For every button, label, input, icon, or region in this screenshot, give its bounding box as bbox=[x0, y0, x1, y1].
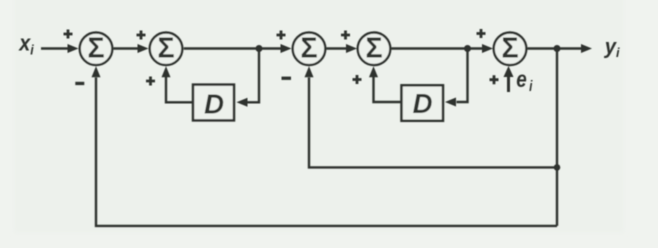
wire sum1 to sum2 bbox=[114, 47, 139, 49]
summing node U4 bbox=[358, 33, 391, 66]
wire sum5 to output bbox=[527, 47, 582, 49]
arrowhead output bbox=[581, 44, 592, 53]
plus sign at sum5 input bbox=[477, 29, 486, 38]
svg-text:D: D bbox=[413, 88, 433, 119]
plus sign at sum2 feedback bbox=[146, 77, 155, 86]
arrowhead into D2 bbox=[445, 98, 456, 107]
arrowhead into sum3 bbox=[281, 44, 292, 53]
node N2 dot bbox=[464, 45, 471, 52]
output node dot bbox=[554, 45, 561, 52]
svg-text:Σ: Σ bbox=[157, 33, 174, 65]
wire D1 output to sum2 bbox=[166, 77, 193, 102]
svg-text:Σ: Σ bbox=[365, 33, 382, 65]
arrowhead into sum1 bbox=[68, 44, 79, 53]
arrowhead inner feedback into sum3 bbox=[305, 66, 314, 77]
svg-text:Σ: Σ bbox=[501, 33, 518, 65]
arrowhead into sum5 bbox=[482, 44, 493, 53]
plus sign at sum5 e input bbox=[490, 75, 499, 84]
plus sign at sum4 feedback bbox=[353, 75, 362, 84]
summing node U1 bbox=[80, 33, 113, 66]
minus sign at sum1 feedback bbox=[75, 82, 84, 85]
minus sign at sum3 feedback bbox=[282, 77, 292, 80]
svg-text:Σ: Σ bbox=[300, 33, 317, 65]
plus sign at sum1 input bbox=[64, 30, 73, 39]
arrowhead into D1 bbox=[237, 98, 248, 107]
plus sign at sum2 input bbox=[137, 31, 146, 40]
delay block D2 bbox=[402, 85, 444, 121]
wire sum4 to sum5 bbox=[391, 47, 482, 49]
plus sign at sum4 input bbox=[341, 31, 350, 40]
feedback junction dot bbox=[554, 164, 561, 171]
plus sign at sum3 input bbox=[277, 31, 286, 40]
summing node U5 bbox=[494, 33, 527, 66]
wire node N1 down to D1 input bbox=[247, 49, 259, 103]
node N1 dot bbox=[256, 45, 263, 52]
wire input to sum1 bbox=[41, 47, 68, 49]
arrowhead D1 to sum2 bottom bbox=[162, 66, 171, 77]
wire output node down (inner+outer feedback drop) bbox=[556, 49, 558, 226]
summing node U3 bbox=[293, 33, 326, 66]
arrowhead D2 to sum4 bottom bbox=[369, 66, 378, 77]
arrowhead into sum2 bbox=[138, 44, 149, 53]
wire sum3 to sum4 bbox=[326, 47, 346, 49]
svg-text:Σ: Σ bbox=[87, 33, 104, 65]
delay block D1 bbox=[193, 85, 234, 121]
svg-text:D: D bbox=[204, 89, 224, 120]
wire D2 output to sum4 bbox=[374, 77, 402, 102]
wire inner feedback to sum3 bbox=[309, 78, 557, 168]
summing node U2 bbox=[150, 33, 183, 66]
wire node N2 down to D2 input bbox=[457, 49, 468, 103]
e_i input arrow bbox=[504, 66, 514, 92]
arrowhead outer feedback into sum1 bbox=[92, 66, 101, 77]
wire outer feedback to sum1 bbox=[96, 78, 557, 226]
arrowhead into sum4 bbox=[346, 44, 357, 53]
wire sum2 to sum3 bbox=[184, 47, 281, 49]
